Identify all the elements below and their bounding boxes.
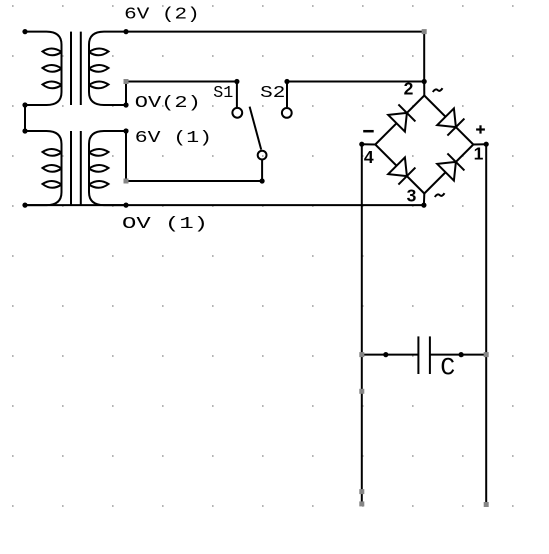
- corner marker on 0V(2) wire: [124, 79, 129, 84]
- switch S2 stem: [286, 82, 288, 108]
- label + (plus): [476, 125, 485, 133]
- wire net 0V(1): transformer bottom to bridge terminal 3: [25, 204, 424, 206]
- net label 6V (1): [135, 129, 212, 148]
- node: primary terminals: [22, 29, 27, 208]
- node: 6V(2) at transformer: [123, 29, 128, 34]
- svg-text:4: 4: [364, 147, 374, 167]
- bridge stub to terminal 1: [473, 143, 486, 145]
- label 4 (bridge pin): [364, 147, 374, 167]
- diode D3 (4 to 3, lower-left): [388, 157, 415, 184]
- node: 0V(1) at transformer: [123, 203, 128, 208]
- label C: [440, 354, 455, 383]
- svg-text:OV (1): OV (1): [122, 215, 208, 234]
- switch S1 stem: [236, 82, 238, 108]
- label - (minus): [363, 130, 374, 133]
- node: S2 top contact junction: [284, 79, 289, 84]
- wire net 6V(2): transformer top to bridge terminal 2: [126, 32, 424, 82]
- label S2: [260, 84, 285, 103]
- svg-text:OV(2): OV(2): [135, 94, 201, 113]
- transformer T1 primary winding P2 (bottom-left): [25, 131, 62, 205]
- label ~ (top AC): [433, 88, 443, 92]
- switch S1 fixed contact circle: [232, 108, 242, 118]
- svg-text:6V (2): 6V (2): [124, 5, 200, 24]
- node: bridge terminal 2: [422, 79, 427, 84]
- switch S1 blade: [250, 107, 262, 150]
- node: bridge terminal 3: [421, 203, 426, 208]
- svg-text:3: 3: [407, 186, 417, 206]
- node: capacitor left pin: [383, 352, 388, 357]
- node: capacitor right pin: [459, 352, 464, 357]
- switch S2 contact circle: [282, 108, 292, 118]
- node: S1 bottom contact junction: [260, 178, 265, 183]
- diode D2 (2 to 1, upper-right): [437, 108, 464, 135]
- wire: negative rail from bridge terminal 4 down: [361, 144, 363, 504]
- node: bridge terminal 1: [484, 142, 489, 147]
- svg-text:6V (1): 6V (1): [135, 129, 212, 148]
- wire net 6V(1): transformer to switch S1 bottom contact: [126, 131, 262, 181]
- net label 0V (1): [122, 215, 208, 234]
- capacitor C plates: [418, 336, 430, 374]
- corner marker on 6V(2) wire: [422, 29, 427, 34]
- transformer T1 primary winding P1 (top-left): [25, 32, 62, 105]
- label 3 (bridge pin): [407, 186, 417, 206]
- wire: capacitor left lead: [362, 354, 419, 356]
- wire: positive rail from bridge terminal 1 down: [485, 144, 487, 504]
- wire: primary series link: [24, 105, 26, 131]
- diode D1 (4 to 2, upper-left): [388, 104, 415, 131]
- corner marker on 6V(1) wire: [124, 179, 129, 184]
- transformer core: [71, 32, 81, 205]
- node: S1 top contact junction: [234, 79, 239, 84]
- svg-text:S2: S2: [260, 84, 285, 103]
- diode D4 (3 to 1, lower-right): [437, 153, 464, 180]
- transformer T1 secondary winding S2w (bottom-right): [89, 131, 126, 205]
- svg-text:1: 1: [474, 144, 484, 164]
- node: 6V(1) at transformer: [123, 128, 128, 133]
- label ~ (bottom AC): [435, 193, 445, 197]
- bridge stub to terminal 2: [423, 81, 425, 95]
- wire end markers (gray): [359, 352, 488, 507]
- switch S1 lower stem: [261, 160, 263, 181]
- node: bridge terminal 4: [359, 142, 364, 147]
- wire net 0V(2): transformer to switch S1 top contact: [126, 82, 237, 106]
- switch S1 moving contact circle: [258, 151, 267, 160]
- net label 0V(2): [135, 94, 201, 113]
- node: 0V(2) at transformer: [123, 102, 128, 107]
- wire: capacitor right lead: [430, 354, 486, 356]
- transformer T1 secondary winding S1w (top-right): [89, 32, 126, 105]
- label S1: [213, 84, 233, 103]
- label 1 (bridge pin): [474, 144, 484, 164]
- bridge stub to terminal 3: [423, 194, 425, 206]
- svg-text:S1: S1: [213, 84, 233, 103]
- wire: S2 top contact to bridge terminal 2: [287, 81, 424, 83]
- bridge rectifier frame (diamond): [375, 96, 473, 194]
- svg-text:C: C: [440, 354, 455, 383]
- label 2 (bridge pin): [404, 79, 414, 99]
- net label 6V (2): [124, 5, 200, 24]
- svg-text:2: 2: [404, 79, 414, 99]
- bridge stub to terminal 4: [362, 143, 376, 145]
